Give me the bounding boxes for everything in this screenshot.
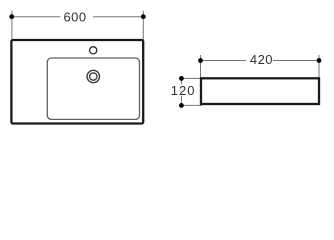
dimension 120: bottom extension line	[181, 104, 202, 106]
dimension 600: right extension line	[142, 11, 144, 40]
svg-text:420: 420	[250, 52, 273, 67]
dimension 120: top extension line	[181, 77, 201, 79]
dimension 600: line left segment	[12, 16, 61, 18]
dimension 420: right extension line	[318, 55, 320, 78]
dimension 120: line top segment	[180, 78, 182, 84]
dimension 600: left extension line	[11, 11, 13, 40]
dimension 600: right dot	[141, 14, 146, 19]
top view: basin inner rectangle	[47, 58, 139, 119]
side view: body rectangle	[201, 78, 319, 104]
dimension 420: line right segment	[273, 60, 319, 62]
top view: outer rim rectangle	[11, 40, 143, 124]
dimension 120: bottom dot	[179, 103, 184, 108]
dimension 420: left dot	[198, 58, 203, 63]
dimension 120: line bottom segment	[180, 96, 182, 106]
top view: drain inner circle	[90, 73, 97, 80]
dimension 600: line right segment	[93, 16, 143, 18]
dimension 420: line left segment	[201, 60, 247, 62]
dimension 420: left extension line	[200, 55, 202, 78]
svg-text:120: 120	[171, 83, 196, 98]
dimension 120: top dot	[179, 76, 184, 81]
dimension 420: right dot	[317, 58, 322, 63]
dimension 600: left dot	[9, 14, 14, 19]
svg-text:600: 600	[63, 9, 86, 24]
top view: faucet hole	[90, 47, 97, 54]
top view: drain outer circle	[87, 70, 99, 82]
